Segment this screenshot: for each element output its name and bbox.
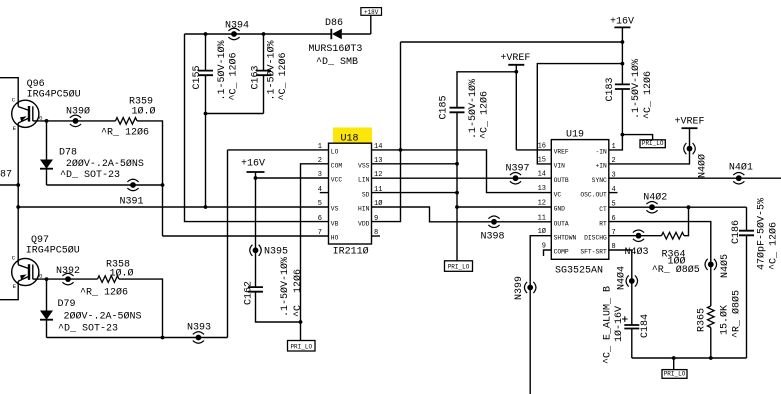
wire U18 pin4 NC stub <box>320 192 329 194</box>
wire net N387 from left edge <box>0 184 18 186</box>
node N395 <box>250 245 262 256</box>
wire RT pin6 to R365 <box>609 222 711 306</box>
resistor R359 <box>116 118 138 125</box>
transistor Q97 <box>12 255 43 290</box>
svg-text:PRI_LO: PRI_LO <box>448 264 470 271</box>
node N393 <box>193 332 204 344</box>
svg-text:RT: RT <box>599 220 607 227</box>
wire collector rail top <box>0 78 18 107</box>
node N397 <box>510 172 521 184</box>
wire caps bottom to VS <box>206 113 264 115</box>
svg-text:LIN: LIN <box>358 177 370 184</box>
resistor R358 <box>98 276 120 283</box>
svg-text:^C_ 12Ø6: ^C_ 12Ø6 <box>479 91 491 139</box>
capacitor C184 electrolytic <box>622 316 639 358</box>
svg-text:47ØpF-5ØV-5%: 47ØpF-5ØV-5% <box>756 198 768 270</box>
power +VREF (right) <box>675 117 705 129</box>
diode D78 <box>40 121 53 185</box>
svg-text:GND: GND <box>554 206 566 213</box>
svg-text:.1-5ØV-1Ø%: .1-5ØV-1Ø% <box>266 40 278 100</box>
capacitor C185 <box>450 72 517 261</box>
op-amp U18 IR2110 gate driver <box>318 128 383 258</box>
power +16V (left) <box>241 159 265 288</box>
wire LO riser to U18 pin1 <box>227 150 229 338</box>
svg-text:+18V: +18V <box>364 9 379 16</box>
svg-text:^D_ SOT-23: ^D_ SOT-23 <box>58 324 118 335</box>
svg-text:IRG4PC5ØU: IRG4PC5ØU <box>26 245 80 257</box>
svg-text:1: 1 <box>318 143 322 151</box>
node N391 <box>127 179 138 191</box>
svg-text:VSS: VSS <box>358 163 370 170</box>
capacitor C186 <box>739 207 754 358</box>
svg-text:DISCHG: DISCHG <box>584 234 607 241</box>
node N402 <box>646 201 657 213</box>
svg-text:HO: HO <box>331 235 339 242</box>
wire +IN pin2 to +VREF <box>609 128 690 164</box>
wire R358 to corner down <box>119 279 163 337</box>
svg-text:E: E <box>13 125 17 132</box>
svg-text:VDD: VDD <box>358 220 370 227</box>
svg-text:VS: VS <box>331 206 339 213</box>
svg-text:MURS16ØT3: MURS16ØT3 <box>308 43 362 55</box>
wire OSC.OUT pin4 NC stub <box>609 192 618 194</box>
wire emitter Q96 to collector Q97 rail <box>17 123 19 265</box>
svg-text:SHTDWN: SHTDWN <box>554 234 577 241</box>
svg-text:N397: N397 <box>506 164 530 175</box>
node N399 <box>524 282 536 293</box>
svg-text:.1-5ØV-1Ø%: .1-5ØV-1Ø% <box>216 40 228 100</box>
svg-text:SFT-SRT: SFT-SRT <box>580 249 607 256</box>
svg-text:^D_ SOT-23: ^D_ SOT-23 <box>60 170 120 181</box>
svg-text:87: 87 <box>0 170 12 181</box>
svg-text:^D_ SMB: ^D_ SMB <box>316 57 358 68</box>
svg-text:VC: VC <box>554 191 562 198</box>
svg-text:PRI_LO: PRI_LO <box>642 140 664 147</box>
wire R364 up to CT <box>684 207 689 236</box>
node N394 <box>228 28 239 40</box>
svg-text:OSC.OUT: OSC.OUT <box>580 191 607 198</box>
svg-text:+VREF: +VREF <box>500 53 530 64</box>
wire VIN U19 pin15 from +16V <box>537 64 622 164</box>
svg-text:1Ø: 1Ø <box>538 227 546 236</box>
svg-text:15.ØK: 15.ØK <box>719 305 731 335</box>
node N400 <box>684 143 696 154</box>
svg-text:CT: CT <box>599 206 607 213</box>
svg-text:PRI_LO: PRI_LO <box>664 371 686 378</box>
svg-text:13: 13 <box>538 185 546 193</box>
svg-text:^R_ Ø8Ø5: ^R_ Ø8Ø5 <box>731 290 743 338</box>
svg-text:6: 6 <box>318 215 322 223</box>
svg-text:Q97: Q97 <box>31 235 49 246</box>
svg-text:N391: N391 <box>120 196 144 207</box>
svg-text:D78: D78 <box>59 148 77 159</box>
svg-text:1Ø.Ø: 1Ø.Ø <box>132 106 156 118</box>
svg-text:N395: N395 <box>264 247 288 258</box>
svg-text:C: C <box>12 255 16 262</box>
svg-text:N392: N392 <box>56 266 80 277</box>
resistor R364 <box>662 232 685 239</box>
svg-text:IR211Ø: IR211Ø <box>333 246 369 258</box>
svg-text:OUTB: OUTB <box>554 177 569 184</box>
svg-text:N39Ø: N39Ø <box>66 105 90 117</box>
wire HO to U18 pin7 <box>163 235 329 237</box>
svg-text:C183: C183 <box>605 77 616 101</box>
svg-text:N399: N399 <box>514 276 525 300</box>
svg-text:C162: C162 <box>244 281 255 305</box>
svg-text:U18: U18 <box>341 134 359 145</box>
svg-text:^R_ Ø8Ø5: ^R_ Ø8Ø5 <box>652 264 700 276</box>
wire COM down to PRI_LO <box>301 164 329 341</box>
svg-text:N398: N398 <box>481 232 505 243</box>
svg-text:VIN: VIN <box>554 163 566 170</box>
wire bottom ground rail <box>632 357 747 359</box>
svg-text:^C_ 12Ø6: ^C_ 12Ø6 <box>292 269 304 317</box>
wire +16V over to VC U19 pin13 <box>401 150 552 193</box>
node N401 <box>733 172 744 184</box>
svg-text:1: 1 <box>612 143 616 151</box>
svg-text:+VREF: +VREF <box>675 117 705 128</box>
svg-text:.1-5ØV-1Ø%: .1-5ØV-1Ø% <box>467 79 479 139</box>
svg-text:N4Ø5: N4Ø5 <box>719 254 731 278</box>
svg-text:3: 3 <box>318 171 322 179</box>
diode D86 <box>331 29 371 39</box>
svg-text:VCC: VCC <box>331 177 343 184</box>
node N398 <box>488 216 499 228</box>
wire net N391 <box>47 184 163 186</box>
wire gate Q96 / net N390 <box>39 120 115 122</box>
svg-text:^C_ E_ALUM_ B: ^C_ E_ALUM_ B <box>603 286 614 364</box>
wire SHTDWN pin10 to N399 down <box>530 236 551 394</box>
node N403 <box>633 230 644 242</box>
svg-text:SYNC: SYNC <box>592 177 607 184</box>
svg-text:Q96: Q96 <box>27 79 45 90</box>
svg-text:5: 5 <box>318 200 322 208</box>
svg-text:COMP: COMP <box>554 249 569 256</box>
svg-text:VREF: VREF <box>554 149 569 156</box>
svg-text:12: 12 <box>538 200 546 208</box>
wire net N393 bottom <box>47 337 228 339</box>
wire emitter Q97 to bottom edge <box>0 281 18 300</box>
wire VSS pin13 to ground <box>372 163 458 165</box>
svg-text:R365: R365 <box>697 308 708 332</box>
svg-text:-IN: -IN <box>595 149 607 156</box>
power +18V boxed <box>361 8 382 34</box>
svg-text:C155: C155 <box>192 65 203 89</box>
wire COMP pin9 stub <box>544 250 552 256</box>
svg-text:HIN: HIN <box>358 206 370 213</box>
svg-text:7: 7 <box>318 229 322 237</box>
svg-text:N393: N393 <box>187 323 211 334</box>
svg-text:^C_ 12Ø6: ^C_ 12Ø6 <box>228 52 240 100</box>
svg-text:C: C <box>12 97 16 104</box>
svg-text:^C_ 12Ø6: ^C_ 12Ø6 <box>642 71 654 119</box>
wire N394 rail down to VB <box>185 34 329 222</box>
svg-text:N4Ø2: N4Ø2 <box>643 191 667 203</box>
wire SYNC pin3 to right edge <box>609 177 781 179</box>
svg-text:D86: D86 <box>325 18 343 29</box>
svg-text:15: 15 <box>538 156 546 164</box>
svg-text:U19: U19 <box>566 130 584 141</box>
svg-text:COM: COM <box>331 163 343 170</box>
ground PRI_LO (bottom) <box>673 358 675 370</box>
wire LIN pin12 to OUTB U19 pin14 <box>372 177 552 179</box>
wire CT pin5 to C186 <box>609 206 747 208</box>
svg-text:.1-5ØV-1Ø%: .1-5ØV-1Ø% <box>279 257 291 317</box>
svg-text:N4ØØ: N4ØØ <box>697 154 709 178</box>
capacitor C162 <box>248 287 301 322</box>
resistor R365 <box>708 306 715 328</box>
svg-text:2: 2 <box>318 157 322 165</box>
svg-text:C185: C185 <box>439 95 450 119</box>
svg-text:VB: VB <box>331 220 339 227</box>
node N392 <box>62 273 73 285</box>
svg-text:N4Ø1: N4Ø1 <box>729 162 753 174</box>
ground PRI_LO (C185/GND) <box>445 261 473 272</box>
svg-text:PRI_LO: PRI_LO <box>290 343 312 350</box>
svg-text:N394: N394 <box>225 21 249 32</box>
svg-text:E: E <box>13 283 17 290</box>
svg-text:11: 11 <box>538 214 546 222</box>
svg-text:N4Ø3: N4Ø3 <box>625 246 649 258</box>
capacitor C163 <box>256 34 271 114</box>
node N405 <box>705 259 717 270</box>
svg-text:1Ø-16V: 1Ø-16V <box>613 306 625 342</box>
wire VREF U19 pin16 <box>516 149 551 151</box>
svg-text:SG3525AN: SG3525AN <box>555 266 603 277</box>
svg-text:14: 14 <box>538 171 546 179</box>
svg-text:16: 16 <box>538 142 546 150</box>
ground PRI_LO (C183/-IN) <box>622 135 652 140</box>
wire U18 pin8 NC stub <box>372 235 381 237</box>
svg-text:1Ø.Ø: 1Ø.Ø <box>110 268 134 280</box>
transistor Q96 <box>12 97 43 132</box>
capacitor C155 <box>198 34 213 114</box>
wire pin14 to +16V vertical <box>372 149 401 151</box>
wire gate Q97 / net N392 <box>39 278 97 280</box>
svg-text:OUTA: OUTA <box>554 221 569 228</box>
svg-text:D79: D79 <box>58 299 76 310</box>
svg-text:C184: C184 <box>640 314 651 338</box>
node N390 <box>70 115 81 127</box>
svg-text:IRG4PC5ØU: IRG4PC5ØU <box>27 89 81 101</box>
op-amp U19 SG3525AN PWM controller <box>538 130 616 277</box>
svg-text:2ØØV-.2A-5ØNS: 2ØØV-.2A-5ØNS <box>66 158 144 170</box>
svg-text:.1-5ØV-1Ø%: .1-5ØV-1Ø% <box>630 59 642 119</box>
svg-text:^C_ 12Ø6: ^C_ 12Ø6 <box>277 52 289 100</box>
wire +16V drop to VDD pin9 <box>372 42 401 222</box>
ground PRI_LO (COM) <box>288 341 316 352</box>
wire SFT-SRT pin8 to C184 <box>609 250 632 325</box>
svg-text:+16V: +16V <box>241 159 265 170</box>
svg-text:N4Ø4: N4Ø4 <box>616 266 628 290</box>
capacitor C183 <box>609 42 630 150</box>
svg-text:2ØØV-.2A-5ØNS: 2ØØV-.2A-5ØNS <box>64 311 142 323</box>
svg-text:C186: C186 <box>731 220 742 244</box>
svg-text:SD: SD <box>362 191 370 198</box>
wire HIN pin10 jog to OUTA U19 pin11 <box>372 207 552 222</box>
svg-text:+16V: +16V <box>610 17 634 28</box>
power +VREF (mid) <box>500 53 530 150</box>
wire R359 to corner <box>137 121 163 236</box>
svg-text:LO: LO <box>331 149 339 156</box>
wire +16V rail top <box>401 41 623 43</box>
wire net N394 top <box>185 33 332 35</box>
svg-text:C163: C163 <box>251 65 262 89</box>
wire VCC stub <box>256 177 329 179</box>
svg-text:+IN: +IN <box>595 163 607 170</box>
node N404 <box>626 275 638 286</box>
wire GND U19 pin12 <box>457 206 551 208</box>
svg-text:^R_ 12Ø6: ^R_ 12Ø6 <box>80 287 128 299</box>
diode D79 <box>40 279 53 337</box>
wire SD pin11 to ground <box>372 192 458 194</box>
power +16V (top right) <box>610 17 634 43</box>
wire DISCHG pin7 to R364 <box>609 235 662 237</box>
svg-text:^C_ 12Ø6: ^C_ 12Ø6 <box>768 222 780 270</box>
wire VS switch node to U18 pin5 <box>18 206 328 208</box>
svg-text:^R_ 12Ø6: ^R_ 12Ø6 <box>101 127 149 139</box>
